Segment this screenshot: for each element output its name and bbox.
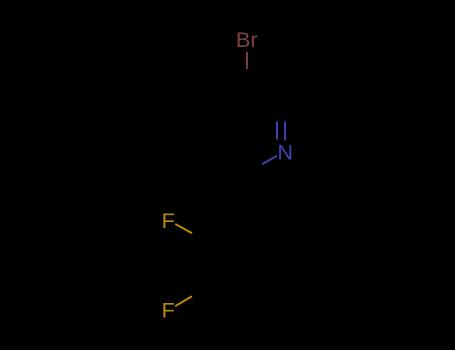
bond D=E inner line <box>248 282 277 299</box>
svg-text:F: F <box>162 298 175 323</box>
bond C4=C5 inner line <box>218 95 247 112</box>
atom label N <box>277 139 293 164</box>
atom label F1 <box>162 208 175 233</box>
bond C-F2 (carbon half) <box>192 286 209 296</box>
bond C2=C3 main <box>209 151 247 173</box>
bond C3-C4 <box>208 107 210 151</box>
bond D=E main <box>247 286 285 308</box>
atom label F2 <box>162 298 175 323</box>
bond A-B <box>209 220 247 242</box>
bond C2=C3 inner line <box>218 147 247 164</box>
bond C-F2 (fluorine half, gold) <box>175 296 192 306</box>
bond N-C2 (carbon half) <box>247 164 262 173</box>
svg-text:Br: Br <box>236 27 258 52</box>
bond C6=N main (carbon half) <box>284 107 286 122</box>
atom label Br <box>236 27 258 52</box>
bond N-C2 (nitrogen half, blue) <box>262 156 277 165</box>
bond C2-A biaryl link <box>246 173 248 220</box>
bond F6=A main <box>247 220 285 242</box>
bond B-F1 (carbon half) <box>192 233 209 242</box>
bond C5-Br (carbon half) <box>246 69 248 85</box>
bond C6=N inner line (nitrogen half, blue) <box>276 122 278 140</box>
bond C6=N inner line (carbon half) <box>276 114 278 122</box>
bond C5-Br (halo half, dark red) <box>246 52 248 69</box>
bond F6=A inner line <box>248 230 277 247</box>
bond E-F6 <box>284 242 286 286</box>
bond B=C main <box>208 242 210 286</box>
bond C6=N main (nitrogen half, blue) <box>284 122 286 141</box>
bond B-F1 (fluorine half, gold) <box>175 224 192 233</box>
bond C4=C5 main <box>209 85 247 107</box>
svg-text:F: F <box>162 208 175 233</box>
svg-text:N: N <box>277 139 293 164</box>
bond C-D <box>209 286 247 308</box>
bond B=C inner line <box>216 248 218 281</box>
bond C5-C6 <box>247 85 285 107</box>
